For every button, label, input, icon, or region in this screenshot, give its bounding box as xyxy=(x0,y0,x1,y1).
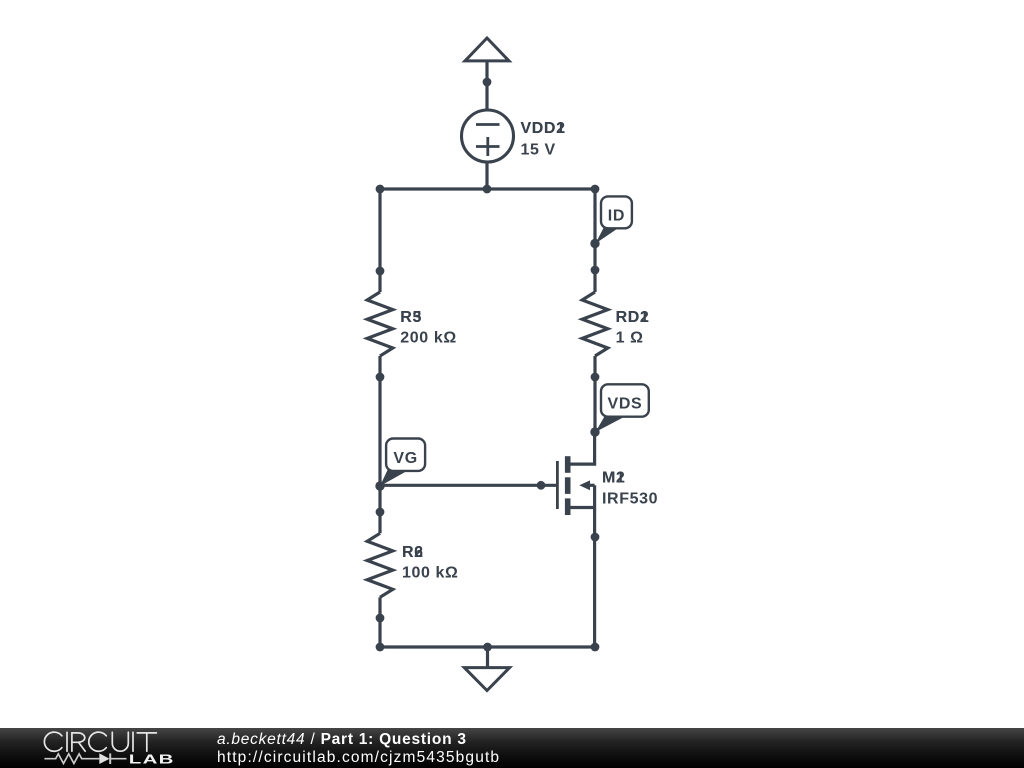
svg-text:VG: VG xyxy=(393,450,417,467)
svg-text:LAB: LAB xyxy=(129,752,175,766)
svg-text:ID: ID xyxy=(608,207,625,224)
svg-text:RD2: RD2 xyxy=(616,309,650,326)
svg-text:200 kΩ: 200 kΩ xyxy=(400,330,456,347)
svg-text:VDS: VDS xyxy=(608,396,643,413)
svg-text:R5: R5 xyxy=(400,309,422,326)
svg-text:IRF530: IRF530 xyxy=(602,491,658,508)
svg-text:1 Ω: 1 Ω xyxy=(616,330,644,347)
svg-text:100 kΩ: 100 kΩ xyxy=(402,565,458,582)
svg-text:VDD2: VDD2 xyxy=(521,120,566,137)
svg-text:M2: M2 xyxy=(602,470,625,487)
svg-text:R6: R6 xyxy=(402,544,424,561)
svg-text:15 V: 15 V xyxy=(521,142,556,159)
